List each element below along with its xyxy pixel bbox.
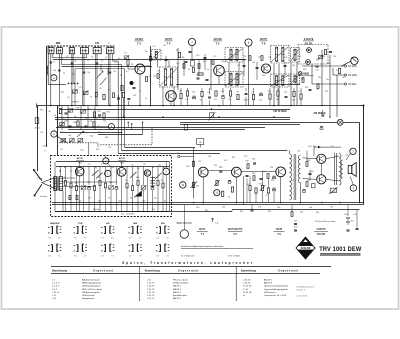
svg-text:4 B: 4 B <box>129 255 132 257</box>
capacitor <box>246 174 249 176</box>
svg-text:Ausführliche Abgleichplatzanga: Ausführliche Abgleichplatzangaben vorbeh… <box>181 245 225 248</box>
svg-text:4 B: 4 B <box>101 255 104 257</box>
svg-text:C81: C81 <box>222 207 225 209</box>
junction <box>193 202 195 204</box>
coil <box>95 92 97 97</box>
wire <box>47 46 49 84</box>
wire <box>176 84 300 86</box>
resistor <box>186 91 188 96</box>
svg-text:R10: R10 <box>203 61 206 63</box>
svg-text:L 28, 29: L 28, 29 <box>243 279 251 281</box>
svg-text:5k6: 5k6 <box>221 91 224 93</box>
earphone jack <box>351 57 358 64</box>
svg-text:30: 30 <box>200 99 202 101</box>
test point 1 <box>105 170 111 176</box>
svg-text:R36: R36 <box>73 122 76 124</box>
svg-text:C1: C1 <box>53 62 55 64</box>
svg-text:5n: 5n <box>207 69 209 71</box>
svg-text:AM/UKW: AM/UKW <box>50 222 60 225</box>
wire <box>329 55 331 117</box>
wire <box>110 167 112 185</box>
capacitor <box>69 125 72 127</box>
wire <box>62 177 75 179</box>
component <box>98 114 101 116</box>
svg-text:6 D: 6 D <box>111 238 114 240</box>
svg-text:R10: R10 <box>163 168 166 170</box>
svg-text:C11: C11 <box>143 164 146 166</box>
svg-text:Tr 34: Tr 34 <box>243 288 249 291</box>
svg-text:1k2: 1k2 <box>221 61 224 63</box>
svg-text:TRV 1001 DEW: TRV 1001 DEW <box>319 246 361 254</box>
svg-text:NF (AM): NF (AM) <box>348 74 357 77</box>
trimmer <box>124 56 129 59</box>
svg-text:0,1: 0,1 <box>126 71 129 73</box>
svg-text:C44: C44 <box>315 70 318 72</box>
bus wire <box>180 124 300 126</box>
component <box>65 112 68 114</box>
capacitor <box>253 162 256 164</box>
svg-text:10n: 10n <box>154 198 157 200</box>
junction <box>329 116 330 117</box>
svg-text:C43: C43 <box>342 77 345 79</box>
svg-text:C32: C32 <box>298 56 301 58</box>
bus wire <box>52 202 364 204</box>
wire <box>108 54 110 106</box>
svg-text:0,5: 0,5 <box>164 200 167 202</box>
wire <box>218 76 220 85</box>
svg-text:Bandfilterspule: Bandfilterspule <box>173 294 188 297</box>
resistor <box>267 188 269 193</box>
svg-text:Abgleichpunkte: Abgleichpunkte <box>177 222 193 225</box>
svg-text:5k: 5k <box>161 180 163 182</box>
svg-text:R23: R23 <box>305 87 308 89</box>
svg-text:NF (FM): NF (FM) <box>348 66 357 68</box>
svg-text:C48: C48 <box>76 107 79 109</box>
svg-text:Lautsprecher 16 × 24 W: Lautsprecher 16 × 24 W <box>264 294 286 297</box>
svg-text:C21: C21 <box>259 99 262 101</box>
svg-text:AM-Antennenspule: AM-Antennenspule <box>82 278 101 281</box>
switch contacts MW row2 <box>129 244 131 246</box>
svg-text:R1: R1 <box>125 53 127 55</box>
svg-text:30p: 30p <box>109 182 112 184</box>
svg-text:Bezeichnung: Bezeichnung <box>241 270 256 273</box>
svg-text:L 5, 6, 7: L 5, 6, 7 <box>52 286 60 288</box>
wire <box>123 98 125 117</box>
trimmer <box>60 122 65 125</box>
svg-text:antenne: antenne <box>40 195 48 198</box>
svg-text:2k: 2k <box>108 198 110 200</box>
bus wire <box>60 109 290 111</box>
table divider <box>235 267 237 301</box>
wire <box>76 167 78 186</box>
svg-text:L 24, 25: L 24, 25 <box>147 295 155 297</box>
wire <box>131 124 133 130</box>
svg-text:KW: KW <box>161 223 166 225</box>
capacitor <box>151 186 154 188</box>
wire <box>118 95 120 106</box>
svg-text:NA-ZF 2: NA-ZF 2 <box>173 288 182 291</box>
svg-text:AF117: AF117 <box>119 157 126 160</box>
resistor <box>184 124 187 130</box>
wire <box>320 163 322 174</box>
svg-text:C42: C42 <box>316 89 319 91</box>
svg-text:1k2: 1k2 <box>207 92 210 94</box>
component <box>191 61 195 67</box>
wire <box>82 54 84 106</box>
wire <box>59 166 61 176</box>
svg-text:T 6: T 6 <box>262 42 266 46</box>
svg-text:R33: R33 <box>60 132 63 134</box>
wire <box>128 68 135 70</box>
svg-text:L9: L9 <box>89 109 91 111</box>
capacitor <box>329 50 332 52</box>
svg-text:R25: R25 <box>325 91 328 93</box>
wire <box>183 205 185 230</box>
pilot lamp <box>337 119 343 125</box>
bus wire <box>37 105 364 107</box>
wire <box>249 176 251 185</box>
svg-text:125: 125 <box>192 91 195 93</box>
svg-text:C15: C15 <box>142 200 145 202</box>
svg-text:460 kHz: 460 kHz <box>93 209 100 211</box>
test point 2 <box>103 158 109 164</box>
resistor <box>249 185 251 190</box>
wire <box>99 186 101 212</box>
svg-text:2·OA79: 2·OA79 <box>304 37 314 41</box>
right rail 2 <box>359 123 361 203</box>
capacitor <box>347 229 350 231</box>
wire <box>198 60 200 76</box>
wire <box>280 177 282 203</box>
transistor T2 <box>117 167 126 176</box>
svg-text:T 4: T 4 <box>167 42 171 46</box>
svg-text:b: b <box>53 133 55 136</box>
oscillator transistor <box>144 170 150 176</box>
svg-text:L 30, 31: L 30, 31 <box>243 283 251 285</box>
wire <box>356 210 358 228</box>
capacitor <box>117 97 120 99</box>
svg-text:UKW: UKW <box>43 146 48 148</box>
wire <box>79 176 81 212</box>
capacitor <box>303 189 306 191</box>
junction <box>211 108 212 109</box>
junction <box>359 202 361 204</box>
svg-text:6 D: 6 D <box>84 238 87 240</box>
resistor <box>127 60 129 65</box>
svg-text:C90: C90 <box>294 221 297 223</box>
svg-text:R31: R31 <box>107 112 110 114</box>
resistor <box>162 183 164 188</box>
svg-text:R54: R54 <box>270 167 273 169</box>
wire <box>99 167 101 181</box>
svg-text:FM-Drossein: FM-Drossein <box>264 291 277 294</box>
svg-text:C38: C38 <box>305 74 308 76</box>
svg-text:0,1: 0,1 <box>299 91 302 93</box>
ferrite antenna <box>33 169 42 180</box>
junction <box>150 105 152 107</box>
wire <box>94 106 96 131</box>
svg-text:T 5: T 5 <box>216 42 220 46</box>
svg-text:FM 10,7MHz: FM 10,7MHz <box>274 111 288 113</box>
svg-text:L13: L13 <box>157 71 160 73</box>
svg-text:T 3: T 3 <box>137 42 141 46</box>
wire <box>121 176 123 211</box>
resistor <box>198 73 203 75</box>
svg-text:C36: C36 <box>333 56 336 58</box>
test point 3 <box>163 168 170 175</box>
svg-text:2 D: 2 D <box>166 255 169 257</box>
svg-text:C7: C7 <box>101 164 103 166</box>
wire <box>343 122 359 124</box>
junction <box>202 202 204 204</box>
trimmer <box>70 139 75 142</box>
junction <box>162 105 164 107</box>
detector enclosure <box>298 45 328 65</box>
resistor <box>293 91 295 96</box>
resistor <box>192 161 194 166</box>
trimmer <box>78 139 83 142</box>
svg-text:4k7: 4k7 <box>179 90 182 92</box>
resistor <box>252 94 254 99</box>
wire <box>122 150 288 152</box>
svg-text:Gleichricht.-Eingangstrafo: Gleichricht.-Eingangstrafo <box>264 285 289 288</box>
wire <box>248 46 250 105</box>
svg-text:AM 460kHz: AM 460kHz <box>314 112 327 115</box>
wire <box>333 74 344 76</box>
wire <box>157 167 159 181</box>
wire <box>62 64 122 66</box>
wire <box>269 88 271 94</box>
svg-text:R63: R63 <box>300 212 303 214</box>
capacitor <box>50 61 52 63</box>
wire <box>209 88 211 95</box>
bus wire <box>52 204 364 206</box>
resistor <box>77 121 79 126</box>
junction <box>273 116 274 117</box>
svg-text:C12: C12 <box>87 182 90 184</box>
wire <box>76 191 78 212</box>
resistor <box>145 77 147 82</box>
svg-text:C64: C64 <box>344 214 347 216</box>
capacitor <box>260 92 263 94</box>
svg-text:TON: TON <box>78 223 83 225</box>
battery <box>346 217 350 219</box>
resistor <box>338 68 340 73</box>
resistor <box>149 56 151 61</box>
svg-text:0,5: 0,5 <box>185 99 188 101</box>
wire <box>208 170 231 172</box>
svg-text:R90: R90 <box>294 227 297 229</box>
coil L1 <box>47 66 48 68</box>
tuning section L4 <box>69 48 74 54</box>
svg-text:OC75: OC75 <box>276 228 283 231</box>
wire <box>60 132 122 134</box>
svg-text:5k: 5k <box>151 182 153 184</box>
wire <box>132 191 134 212</box>
svg-text:T 2: T 2 <box>120 163 124 165</box>
resistor <box>104 183 106 188</box>
wire <box>57 106 59 156</box>
inner rail 2 <box>56 166 170 168</box>
capacitor <box>197 77 200 79</box>
junction <box>96 105 98 107</box>
wire <box>303 158 317 159</box>
svg-text:30p: 30p <box>90 136 93 138</box>
svg-text:L30: L30 <box>297 151 300 153</box>
wire <box>72 54 74 85</box>
wire <box>230 96 232 105</box>
dashed gang link <box>59 142 98 144</box>
resistor <box>212 60 214 65</box>
trimmer <box>68 109 73 112</box>
svg-text:C65: C65 <box>354 214 357 216</box>
wire <box>139 74 141 106</box>
svg-text:NA-ZF 1: NA-ZF 1 <box>173 285 182 288</box>
trimmer arrow <box>92 170 99 176</box>
svg-text:C17: C17 <box>153 76 156 78</box>
capacitor <box>85 125 88 127</box>
resistor <box>317 84 319 89</box>
wire <box>290 62 292 106</box>
diode D2 <box>306 60 311 65</box>
svg-text:T 1: T 1 <box>78 163 82 165</box>
wire <box>289 151 291 155</box>
wire <box>296 62 298 106</box>
IF transformer L13 <box>152 50 162 61</box>
wire <box>127 122 129 128</box>
capacitor <box>83 71 85 73</box>
volume pot <box>192 182 194 188</box>
svg-text:C6: C6 <box>91 57 93 59</box>
wire bus <box>62 66 153 68</box>
manufacturer logo <box>296 237 315 259</box>
wire <box>86 54 88 58</box>
svg-text:Nr. 196/26-500: Nr. 196/26-500 <box>181 256 195 258</box>
wire <box>278 64 280 106</box>
svg-text:G e g e n s t a n d: G e g e n s t a n d <box>93 270 113 273</box>
svg-text:L 2, 3, 4: L 2, 3, 4 <box>52 283 60 285</box>
junction <box>128 122 129 123</box>
wire <box>121 65 123 151</box>
wire <box>245 88 247 91</box>
svg-text:1n5: 1n5 <box>276 99 279 101</box>
resistor <box>93 186 95 191</box>
capacitor <box>228 180 231 182</box>
wire <box>87 106 89 127</box>
FM enclosure dashed edge <box>151 128 153 145</box>
svg-text:C58: C58 <box>245 161 248 163</box>
svg-text:C49: C49 <box>62 119 65 121</box>
svg-text:4k7: 4k7 <box>247 184 250 186</box>
svg-text:R3: R3 <box>131 64 133 66</box>
capacitor <box>284 64 287 66</box>
svg-text:C80: C80 <box>196 207 199 209</box>
trimmer <box>83 91 88 94</box>
resistor <box>180 93 182 98</box>
svg-text:UKW-Drossel: UKW-Drossel <box>82 294 95 297</box>
svg-text:R50: R50 <box>198 161 201 163</box>
svg-text:C62: C62 <box>224 160 227 162</box>
wire <box>137 186 139 212</box>
wire <box>157 60 159 68</box>
trimmer arrow <box>100 78 107 86</box>
tuning gang dashed line <box>48 45 116 47</box>
component <box>93 112 95 117</box>
svg-text:0,1: 0,1 <box>251 91 254 93</box>
capacitor marks <box>294 229 297 231</box>
svg-text:5p: 5p <box>74 116 76 118</box>
wire <box>314 146 341 148</box>
svg-text:R44: R44 <box>259 184 262 186</box>
tuning section L6 <box>93 48 101 54</box>
svg-text:10n: 10n <box>98 200 101 202</box>
tuning section L5 <box>81 48 89 54</box>
svg-text:1k: 1k <box>139 91 141 93</box>
IF transformer L16 L17 <box>225 48 243 63</box>
legend rule <box>181 248 253 250</box>
svg-text:4 Ω (bei Vollausschlag): 4 Ω (bei Vollausschlag) <box>315 221 336 223</box>
svg-text:R20: R20 <box>327 63 330 65</box>
svg-text:R59: R59 <box>271 180 274 182</box>
wire <box>300 88 302 94</box>
wire <box>74 69 76 106</box>
switch contacts KW row1 <box>156 226 158 228</box>
resistor <box>247 164 249 169</box>
svg-text:150, 1kΩ: 150, 1kΩ <box>308 146 317 148</box>
resistor <box>277 91 279 96</box>
resistor <box>306 162 308 167</box>
speaker <box>348 166 352 174</box>
trimmer arrow <box>77 131 84 137</box>
wire <box>192 59 246 61</box>
wire <box>321 50 323 106</box>
svg-text:L 22, 23: L 22, 23 <box>147 292 155 294</box>
wire <box>273 191 275 203</box>
transistor T5 <box>214 65 225 76</box>
capacitor <box>356 227 359 229</box>
wire <box>241 170 275 172</box>
terminal TA <box>178 155 180 157</box>
svg-text:a: a <box>53 77 55 80</box>
wire <box>303 178 317 181</box>
resistor <box>253 176 255 181</box>
junction <box>142 122 143 123</box>
svg-text:C61: C61 <box>208 156 211 158</box>
wire <box>165 162 167 168</box>
IF transformer L22 L23 <box>271 74 290 87</box>
resistor <box>157 181 159 186</box>
pot <box>216 180 218 185</box>
svg-text:1: 1 <box>107 173 109 176</box>
switch contacts TON row1 <box>74 226 76 228</box>
svg-text:5μ: 5μ <box>228 197 230 199</box>
wire <box>152 190 154 211</box>
wire <box>309 170 311 180</box>
inner rail bottom <box>55 211 170 213</box>
svg-text:H. N. 196463: H. N. 196463 <box>228 256 241 258</box>
svg-text:R14: R14 <box>252 62 255 64</box>
wire <box>96 54 98 106</box>
svg-text:2 D: 2 D <box>111 255 114 257</box>
svg-text:C71: C71 <box>291 180 294 182</box>
wire <box>127 65 129 69</box>
resistor <box>122 92 124 97</box>
inner rail top <box>56 161 170 163</box>
wire <box>58 126 109 128</box>
wire <box>183 60 185 76</box>
svg-text:Spiegelspule: Spiegelspule <box>82 298 95 300</box>
trimmer <box>81 186 86 189</box>
